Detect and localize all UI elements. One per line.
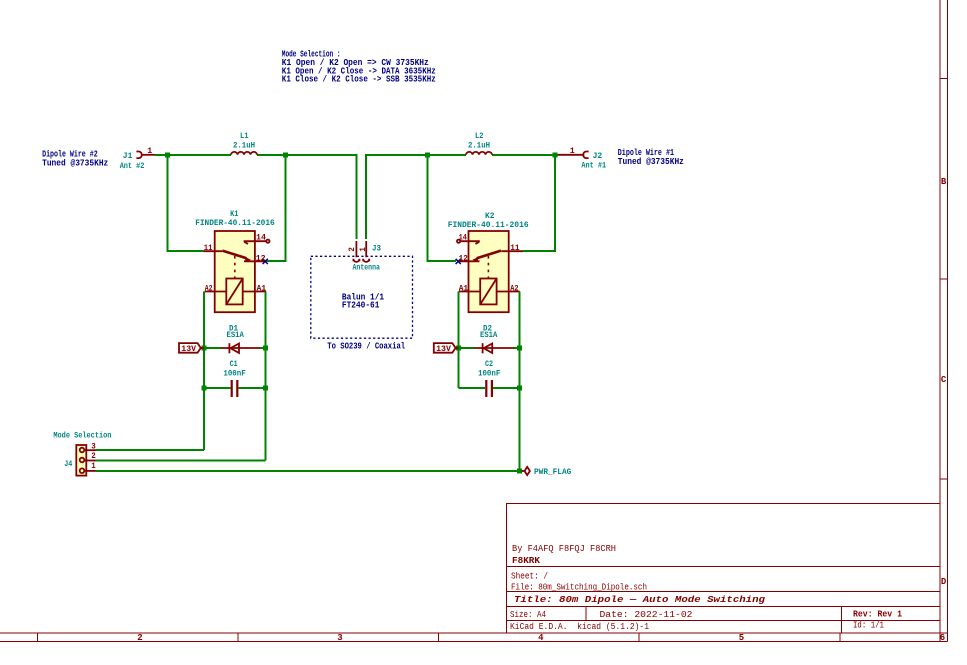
sheet frame right border inner line [939, 0, 941, 641]
balun dashed box [311, 256, 413, 338]
svg-text:1: 1 [358, 247, 368, 252]
junction D2 left [456, 346, 461, 351]
junction C2 right [517, 386, 522, 391]
wire junction to J3 corner [286, 155, 357, 239]
power flag PWR_FLAG [522, 467, 530, 475]
wire junction to L2 left [428, 154, 466, 156]
svg-text:L1: L1 [240, 131, 249, 141]
relay K2 no-connect cross on pin 12 [456, 259, 461, 264]
relay K1 pin 14 [244, 240, 270, 244]
svg-text:J3: J3 [372, 244, 381, 254]
wire J4 pin2 to right rail [96, 460, 266, 462]
wire L2 right to junction [492, 154, 555, 156]
junction pwr flag [517, 469, 522, 474]
relay K2 pin 14 [457, 240, 480, 244]
svg-text:ES1A: ES1A [480, 330, 498, 340]
wire D2 row right [513, 347, 520, 349]
svg-text:100nF: 100nF [478, 368, 500, 378]
svg-text:3: 3 [337, 633, 342, 643]
junction C1 left [202, 386, 207, 391]
note dipole wire 2 [42, 149, 108, 168]
junction node after L1 [283, 152, 288, 157]
junction node top left [165, 152, 170, 157]
title block line under file [507, 591, 941, 593]
global label 13V right [434, 343, 459, 354]
svg-text:1: 1 [147, 146, 152, 156]
svg-text:B: B [941, 177, 947, 187]
svg-text:A1: A1 [459, 284, 468, 294]
svg-text:12: 12 [256, 253, 266, 263]
note mode selection text block [282, 50, 436, 85]
title block divider rev/id [841, 606, 843, 633]
svg-text:11: 11 [510, 243, 519, 253]
note balun text [342, 293, 385, 311]
relay K1 coil diagonal [226, 279, 242, 305]
wire C2 row right [493, 387, 520, 389]
wire K2 right rail [519, 292, 521, 472]
title block line under title [507, 605, 941, 607]
junction D1 right [263, 346, 268, 351]
capacitor C1 [231, 380, 239, 397]
title block divider size/date [585, 606, 587, 620]
svg-text:J4: J4 [64, 459, 72, 469]
svg-text:Date: 2022-11-02: Date: 2022-11-02 [600, 609, 693, 620]
svg-text:K1 Close / K2 Close -> SSB 353: K1 Close / K2 Close -> SSB 3535KHz [282, 75, 436, 85]
connector J4 socket pin 1 [80, 468, 96, 473]
frame tick right y479 [940, 478, 947, 480]
relay K2 pin 11 [501, 250, 523, 252]
svg-text:14: 14 [256, 233, 266, 243]
wire D1 row left [204, 347, 222, 349]
wire K2 left rail [458, 292, 460, 389]
wire J1 to junction [155, 154, 168, 156]
frame tick right y278 [940, 278, 947, 280]
junction node before L2 [425, 152, 430, 157]
wire L1 right to junction [257, 154, 286, 156]
wire junction down to K2 pin11 [523, 155, 555, 251]
svg-text:Sheet: /: Sheet: / [511, 571, 548, 582]
svg-text:F8KRK: F8KRK [512, 555, 540, 566]
svg-text:6: 6 [940, 633, 945, 643]
svg-text:File: 80m_Switching_Dipole.sch: File: 80m_Switching_Dipole.sch [511, 581, 647, 592]
connector J4 socket pin 2 [80, 458, 96, 463]
connector J3 [353, 241, 369, 262]
svg-text:Rev: Rev 1: Rev: Rev 1 [853, 608, 902, 619]
junction node before J2 [552, 152, 557, 157]
frame tick bottom x638 [638, 633, 640, 641]
svg-text:1: 1 [91, 461, 96, 471]
wire junction down to K1 pin12 [266, 155, 285, 261]
relay K1 no-connect cross on pin 12 [263, 259, 268, 264]
wire junction down to K2 pin12 [428, 155, 456, 261]
relay K1 pin 11 [204, 250, 223, 252]
connector J4 socket pin 3 [80, 448, 96, 453]
sheet frame bottom border inner line [0, 632, 947, 634]
diode D1 [221, 343, 260, 353]
relay K2 body [469, 231, 509, 312]
relay K1 coil box [226, 279, 242, 305]
svg-text:12: 12 [459, 253, 468, 263]
svg-text:Tuned @3735KHz: Tuned @3735KHz [42, 158, 108, 168]
relay K2 pin A1 [459, 291, 481, 293]
relay K1 pin A2 [205, 291, 227, 293]
diode D2 [475, 343, 514, 353]
svg-text:To SO239 / Coaxial: To SO239 / Coaxial [327, 341, 405, 351]
svg-text:KiCad E.D.A. kicad (5.1.2)-1: KiCad E.D.A. kicad (5.1.2)-1 [510, 621, 649, 632]
svg-text:Tuned @3735KHz: Tuned @3735KHz [618, 157, 684, 167]
wire C1 row right [238, 387, 265, 389]
relay K2 pin A2 [497, 291, 520, 293]
svg-text:2.1uH: 2.1uH [468, 141, 490, 151]
svg-text:Id: 1/1: Id: 1/1 [853, 620, 884, 631]
relay K2 lever [472, 251, 501, 262]
wire D1 row right [260, 347, 266, 349]
frame tick bottom x438 [438, 633, 440, 641]
svg-text:100nF: 100nF [223, 368, 245, 378]
sheet frame right border outer line [946, 0, 948, 641]
svg-text:Ant #2: Ant #2 [120, 161, 145, 171]
svg-text:2: 2 [91, 451, 96, 461]
svg-text:L2: L2 [475, 131, 484, 141]
svg-text:13V: 13V [181, 344, 197, 354]
note dipole wire 1 [618, 148, 684, 167]
title block line under size row [507, 619, 941, 621]
wire junction to J2 [555, 154, 558, 156]
svg-text:5: 5 [739, 633, 744, 643]
junction D1 left [202, 346, 207, 351]
capacitor C2 [485, 380, 493, 397]
svg-text:ES1A: ES1A [227, 330, 245, 340]
relay K1 lever [222, 251, 251, 262]
svg-text:14: 14 [459, 233, 467, 243]
relay K1 pin 12 [244, 260, 266, 262]
global label 13V left [179, 343, 204, 354]
inductor L2 [466, 152, 492, 155]
svg-text:2.1uH: 2.1uH [233, 141, 255, 151]
wire junction down to K1 pin11 [168, 155, 204, 251]
frame tick bottom x838 [839, 633, 841, 641]
svg-text:A2: A2 [510, 284, 518, 294]
frame tick right y78 [940, 78, 947, 80]
svg-text:D: D [941, 577, 947, 587]
svg-text:1: 1 [570, 146, 575, 156]
svg-text:FT240-61: FT240-61 [342, 301, 380, 311]
wire K1 right rail [265, 292, 267, 461]
svg-text:Title: 80m Dipole — Auto Mode: Title: 80m Dipole — Auto Mode Switching [514, 594, 765, 605]
wire J3 pin1 corner to junction [366, 155, 428, 239]
svg-text:Size: A4: Size: A4 [510, 609, 546, 620]
connector J1 [136, 152, 155, 159]
wire junction to L1 left [168, 154, 232, 156]
svg-text:FINDER-40.11-2016: FINDER-40.11-2016 [448, 220, 529, 230]
relay K2 coil box [480, 279, 496, 305]
junction C1 right [263, 386, 268, 391]
svg-text:3: 3 [91, 441, 96, 451]
wire D2 row left [459, 347, 475, 349]
svg-text:A2: A2 [205, 284, 213, 294]
svg-text:13V: 13V [436, 344, 452, 354]
svg-text:FINDER-40.11-2016: FINDER-40.11-2016 [195, 218, 275, 228]
wire K1 left rail [203, 292, 205, 451]
wire J4 pin1 to pwr flag junction [96, 470, 520, 472]
title block line under comments [507, 566, 941, 568]
relay K2 pin 12 [458, 260, 480, 262]
connector J4 body [76, 445, 86, 476]
svg-text:Mode Selection: Mode Selection [53, 431, 111, 441]
svg-text:2: 2 [137, 633, 142, 643]
svg-text:PWR_FLAG: PWR_FLAG [534, 467, 571, 477]
svg-text:C: C [941, 375, 947, 385]
relay K1 dashed actuator line [234, 256, 236, 279]
wire C2 row left [459, 387, 486, 389]
relay K1 body [215, 231, 255, 312]
junction D2 right [517, 346, 522, 351]
relay K2 dashed actuator line [487, 256, 489, 279]
title block outline [507, 504, 941, 633]
sheet frame bottom border outer line [0, 640, 947, 642]
svg-text:Ant #1: Ant #1 [581, 160, 606, 170]
svg-text:4: 4 [538, 633, 544, 643]
frame tick bottom x37 [37, 633, 39, 641]
connector J2 [558, 152, 589, 159]
svg-text:2: 2 [347, 247, 357, 252]
wire C1 row left [204, 387, 231, 389]
svg-text:Antenna: Antenna [353, 262, 380, 272]
svg-text:11: 11 [204, 243, 213, 253]
wire J4 pin3 to left rail [96, 449, 205, 451]
svg-text:By F4AFQ F8FQJ F8CRH: By F4AFQ F8FQJ F8CRH [512, 543, 616, 554]
frame tick bottom x237 [237, 633, 239, 641]
svg-text:J1: J1 [123, 151, 133, 161]
inductor L1 [231, 152, 257, 155]
relay K1 pin A1 [243, 291, 266, 293]
relay K2 coil diagonal [480, 279, 496, 305]
